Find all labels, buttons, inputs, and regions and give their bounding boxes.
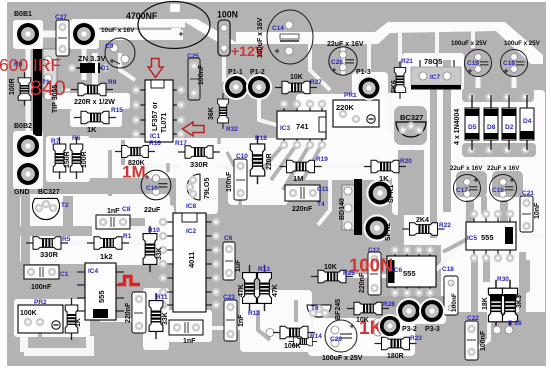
svg-text:10uF x 16V: 10uF x 16V [101, 27, 135, 34]
svg-text:10K: 10K [324, 264, 337, 271]
svg-text:R18: R18 [255, 135, 267, 142]
svg-text:C9: C9 [105, 43, 114, 50]
svg-text:R10: R10 [148, 227, 160, 234]
svg-text:330R: 330R [190, 160, 209, 169]
svg-text:555: 555 [97, 290, 106, 303]
svg-text:79LO5: 79LO5 [204, 177, 211, 199]
svg-text:100N: 100N [217, 10, 238, 20]
svg-text:B0B1: B0B1 [14, 11, 32, 18]
svg-text:C8: C8 [122, 206, 131, 213]
svg-text:BD140: BD140 [339, 198, 346, 220]
svg-text:100uF x 25V: 100uF x 25V [504, 40, 541, 47]
svg-text:C12: C12 [368, 247, 380, 254]
svg-text:R20: R20 [400, 158, 412, 165]
svg-text:100nF: 100nF [31, 284, 52, 291]
svg-text:IC7: IC7 [430, 74, 441, 81]
svg-text:C17: C17 [456, 187, 468, 194]
svg-text:10K: 10K [290, 74, 303, 81]
svg-text:1nF: 1nF [183, 338, 196, 345]
svg-text:TL071: TL071 [161, 113, 168, 133]
svg-text:P3-2: P3-2 [402, 326, 417, 333]
svg-text:100nF: 100nF [451, 293, 458, 312]
svg-text:D2: D2 [505, 124, 514, 131]
svg-text:100nF: 100nF [198, 64, 205, 85]
svg-text:C6: C6 [224, 235, 233, 242]
svg-text:100R: 100R [81, 151, 88, 168]
svg-text:D1: D1 [101, 65, 110, 72]
svg-text:100nF: 100nF [226, 171, 233, 192]
svg-text:R15: R15 [111, 107, 123, 114]
svg-text:IC8: IC8 [186, 203, 197, 210]
svg-text:100uF x 16V: 100uF x 16V [257, 17, 264, 58]
svg-text:IC6: IC6 [392, 267, 403, 274]
svg-text:330R: 330R [40, 250, 59, 259]
svg-text:R8: R8 [14, 61, 23, 68]
svg-text:22uF x 16V: 22uF x 16V [327, 41, 364, 48]
svg-text:R12: R12 [248, 310, 260, 317]
svg-text:B0B2: B0B2 [14, 123, 32, 130]
svg-text:1nF: 1nF [107, 208, 120, 215]
svg-text:220nF: 220nF [125, 302, 132, 323]
svg-text:22uF x 16V: 22uF x 16V [450, 165, 483, 172]
svg-text:PR2: PR2 [34, 299, 47, 306]
svg-text:P1-1: P1-1 [228, 69, 243, 76]
svg-text:IC4: IC4 [88, 268, 99, 275]
svg-text:R1: R1 [123, 233, 132, 240]
svg-text:100K: 100K [284, 343, 301, 350]
svg-text:100uF x 25V: 100uF x 25V [322, 355, 363, 362]
svg-text:R32: R32 [226, 126, 238, 133]
svg-text:R19: R19 [316, 156, 328, 163]
svg-text:4011: 4011 [187, 252, 196, 268]
svg-text:ZN 3.3V: ZN 3.3V [78, 54, 106, 63]
svg-text:820K: 820K [128, 160, 145, 167]
svg-text:IC2: IC2 [186, 228, 197, 235]
svg-text:180R: 180R [387, 353, 404, 360]
svg-text:C11: C11 [317, 186, 329, 193]
svg-text:IC1: IC1 [150, 133, 161, 140]
svg-text:R6: R6 [72, 135, 81, 142]
svg-text:C23: C23 [223, 294, 235, 301]
svg-text:R11: R11 [156, 294, 168, 301]
svg-text:600 IRF: 600 IRF [0, 55, 61, 75]
svg-text:47K: 47K [272, 284, 279, 297]
svg-text:150R: 150R [64, 151, 71, 168]
svg-text:D4: D4 [523, 118, 532, 125]
svg-text:D5: D5 [468, 124, 477, 131]
svg-text:TIP 3055: TIP 3055 [52, 85, 59, 113]
svg-text:R17: R17 [175, 140, 187, 147]
svg-text:555: 555 [481, 233, 494, 242]
svg-text:33K: 33K [162, 312, 169, 325]
svg-text:741: 741 [296, 122, 309, 131]
svg-text:220nF: 220nF [359, 272, 366, 293]
svg-text:C15: C15 [492, 187, 504, 194]
svg-text:T2: T2 [61, 202, 69, 209]
svg-text:LF357 or: LF357 or [152, 102, 159, 131]
svg-text:R27: R27 [310, 79, 322, 86]
svg-text:C14: C14 [272, 25, 284, 32]
svg-text:IC3: IC3 [280, 125, 291, 132]
svg-text:C19: C19 [467, 60, 479, 67]
svg-text:47K: 47K [238, 284, 245, 297]
svg-text:BC327: BC327 [400, 113, 423, 122]
svg-text:GND: GND [14, 189, 30, 196]
svg-text:C27: C27 [55, 14, 67, 21]
svg-text:P1-3: P1-3 [356, 69, 371, 76]
svg-text:22uF x 16V: 22uF x 16V [487, 165, 520, 172]
svg-text:C26: C26 [330, 336, 342, 343]
svg-text:C1: C1 [60, 271, 69, 278]
svg-text:R 26: R 26 [508, 320, 522, 327]
svg-text:C18: C18 [503, 60, 515, 67]
svg-text:33K: 33K [156, 247, 163, 260]
svg-text:10K: 10K [356, 317, 369, 324]
svg-text:1k2: 1k2 [100, 252, 113, 261]
svg-text:3K3: 3K3 [516, 295, 523, 308]
svg-text:10nF: 10nF [534, 202, 541, 219]
svg-text:2K4: 2K4 [416, 217, 429, 224]
svg-text:100N: 100N [349, 255, 393, 276]
svg-text:C18: C18 [442, 266, 454, 273]
svg-text:1M: 1M [293, 174, 303, 183]
svg-text:555: 555 [403, 269, 416, 278]
svg-text:220K: 220K [336, 103, 355, 112]
svg-text:D8: D8 [487, 124, 496, 131]
svg-text:R9: R9 [108, 79, 117, 86]
svg-text:C22: C22 [467, 315, 479, 322]
svg-text:R28: R28 [383, 301, 395, 308]
svg-text:5K6: 5K6 [391, 80, 398, 93]
svg-text:R22: R22 [439, 222, 451, 229]
svg-text:18K: 18K [482, 297, 489, 310]
svg-text:100uF x 25V: 100uF x 25V [451, 40, 488, 47]
svg-text:220R x 1/2W: 220R x 1/2W [74, 99, 115, 106]
svg-text:C28: C28 [331, 59, 343, 66]
svg-text:R21: R21 [401, 58, 413, 65]
svg-text:IC5: IC5 [467, 235, 478, 242]
svg-text:4700NF: 4700NF [126, 11, 158, 21]
svg-text:220nF: 220nF [292, 206, 313, 213]
svg-text:R13: R13 [258, 266, 270, 273]
svg-text:T1: T1 [42, 79, 50, 86]
svg-text:R16: R16 [149, 140, 161, 147]
svg-text:1K: 1K [87, 125, 97, 134]
svg-text:SPK2: SPK2 [385, 223, 392, 241]
svg-text:T6: T6 [311, 305, 319, 312]
svg-text:R30: R30 [497, 276, 509, 283]
svg-text:C21: C21 [522, 190, 534, 197]
svg-text:22uF: 22uF [144, 207, 161, 214]
svg-text:R14: R14 [310, 333, 322, 340]
svg-text:R7: R7 [51, 138, 60, 145]
svg-text:R25: R25 [343, 270, 355, 277]
svg-text:T4: T4 [317, 201, 325, 208]
svg-text:100R: 100R [9, 78, 16, 95]
svg-text:4 x 1N4004: 4 x 1N4004 [454, 109, 461, 145]
svg-text:BC327: BC327 [38, 189, 60, 196]
svg-text:R23: R23 [410, 335, 422, 342]
svg-text:1uF: 1uF [235, 259, 242, 272]
svg-text:C10: C10 [236, 153, 248, 160]
svg-text:R5: R5 [62, 236, 71, 243]
svg-text:P1-2: P1-2 [250, 69, 265, 76]
svg-text:1K: 1K [379, 174, 389, 183]
svg-text:100K: 100K [20, 310, 37, 317]
svg-text:1K: 1K [75, 318, 82, 327]
svg-text:SPK1: SPK1 [388, 185, 395, 203]
svg-text:78O5: 78O5 [424, 57, 442, 66]
svg-text:220R: 220R [266, 153, 273, 170]
svg-text:36K: 36K [208, 107, 215, 120]
svg-text:BF245: BF245 [335, 299, 342, 320]
svg-text:C16: C16 [146, 185, 158, 192]
svg-text:P3-3: P3-3 [425, 326, 440, 333]
svg-text:C25: C25 [187, 53, 199, 60]
svg-text:1nF: 1nF [238, 314, 245, 327]
svg-text:PR1: PR1 [344, 92, 357, 99]
svg-text:100nF: 100nF [480, 330, 487, 351]
